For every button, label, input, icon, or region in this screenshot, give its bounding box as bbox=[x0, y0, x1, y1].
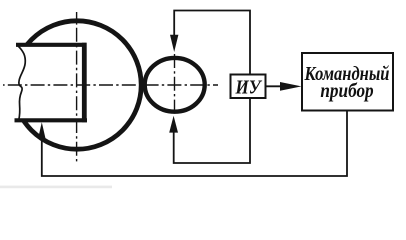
svg-text:прибор: прибор bbox=[320, 80, 373, 103]
svg-text:ИУ: ИУ bbox=[235, 76, 263, 99]
